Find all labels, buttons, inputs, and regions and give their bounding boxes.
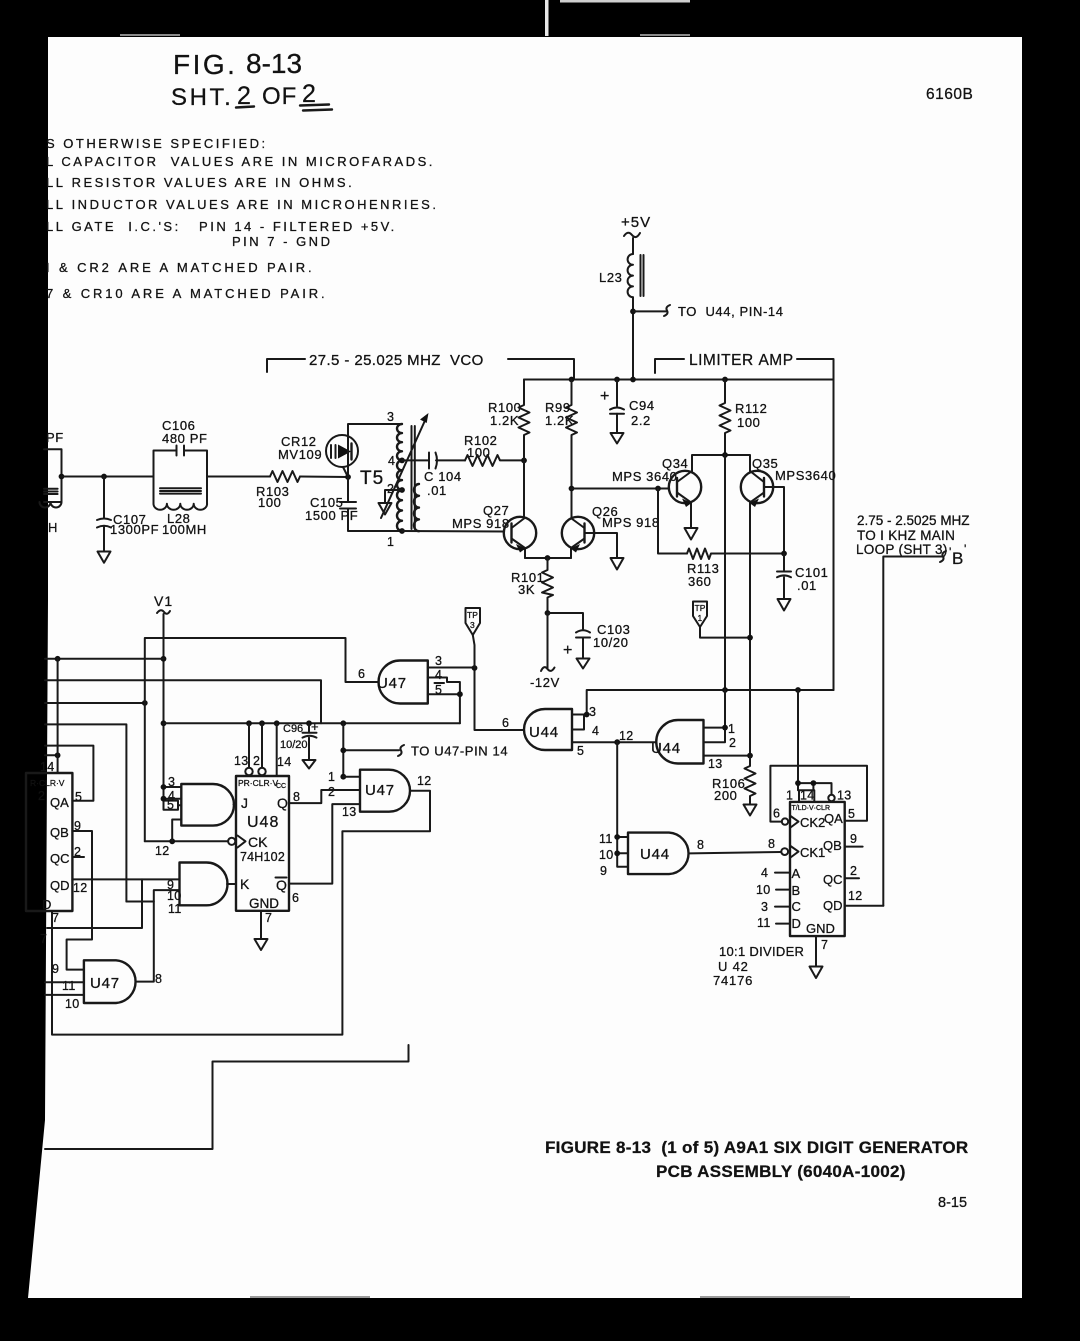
svg-text:QA: QA: [824, 811, 843, 826]
svg-text:1500 PF: 1500 PF: [305, 508, 358, 523]
svg-text:1: 1: [387, 535, 394, 549]
svg-text:3: 3: [435, 654, 442, 668]
svg-text:7: 7: [821, 938, 828, 952]
junction: T5 pin 2 tap: [399, 487, 405, 493]
svg-text:LL GATE I.C.'S: PIN 14 - FI: LL GATE I.C.'S: PIN 14 - FILTERED +5V.: [46, 219, 397, 234]
svg-text:A: A: [792, 866, 801, 881]
svg-text:QA: QA: [50, 795, 69, 810]
resistor R112: [720, 380, 768, 456]
IC U48 74H102 flip-flop: [228, 754, 300, 925]
wire: T5 pin1 to Q27 base: [402, 530, 504, 533]
wire: QB to U47g3 pin9: [67, 831, 92, 970]
svg-text:2: 2: [38, 789, 45, 803]
junction: [614, 739, 620, 745]
wire: gate A output to J: [234, 804, 237, 806]
node: 27.5-25.025 MHZ VCO bracket label: [267, 352, 574, 380]
svg-text:J: J: [241, 795, 248, 811]
junction: [246, 720, 252, 726]
svg-text:PIN 7 - GND: PIN 7 - GND: [232, 234, 332, 249]
svg-text:2: 2: [729, 736, 736, 750]
svg-text:B: B: [952, 549, 963, 568]
svg-text:5: 5: [167, 798, 174, 812]
svg-text:C: C: [792, 899, 801, 914]
svg-text:10/20: 10/20: [280, 739, 308, 751]
svg-text:': ': [949, 545, 951, 559]
transformer T5: [348, 410, 419, 549]
junction: [259, 720, 265, 726]
svg-text:11: 11: [168, 902, 182, 916]
svg-text:200: 200: [714, 788, 738, 803]
svg-text:D: D: [792, 916, 801, 931]
svg-text:12: 12: [155, 844, 170, 858]
svg-text:': ': [964, 542, 966, 556]
wire: gate A pin3: [164, 786, 182, 788]
svg-text:C96: C96: [283, 723, 303, 735]
svg-text:6: 6: [358, 667, 365, 681]
svg-text:2.2: 2.2: [631, 413, 651, 428]
junction: [55, 752, 61, 758]
resistor R106: [712, 756, 756, 804]
junction: [722, 377, 728, 383]
wire: U47g3 out8 riser: [137, 902, 154, 982]
svg-text:C 104: C 104: [424, 469, 462, 484]
svg-text:6: 6: [773, 807, 780, 821]
wire: U44 out8 to U42 CK1: [690, 852, 781, 853]
svg-text:U47: U47: [90, 975, 120, 992]
svg-text:U47: U47: [377, 675, 407, 692]
gate U44 (pins 9,10,11 / out 8): [599, 832, 704, 878]
svg-text:Q: Q: [276, 877, 287, 893]
svg-text:PCB ASSEMBLY (6040A-1002): PCB ASSEMBLY (6040A-1002): [656, 1162, 906, 1181]
wire: U44 pin13: [704, 755, 751, 757]
wire: VCO/limiter top supply rail: [524, 379, 834, 381]
test point TP1: [693, 602, 750, 638]
svg-text:.01: .01: [427, 483, 447, 498]
junction: R99 / Q26 collector node: [569, 486, 575, 492]
svg-text:CK: CK: [248, 834, 268, 850]
junction: [101, 474, 107, 480]
resistor R99: [545, 380, 577, 489]
svg-text:5: 5: [75, 790, 82, 804]
svg-text:R112: R112: [735, 401, 768, 416]
svg-text:11: 11: [62, 979, 76, 993]
node: U42 ground pin 7: [815, 936, 817, 966]
svg-text:8-13: 8-13: [246, 48, 302, 79]
wire: Q26 collector to Q34 base: [572, 488, 670, 490]
svg-text:U47: U47: [365, 782, 395, 799]
svg-text:PR·CLR·V: PR·CLR·V: [238, 778, 278, 788]
ground: [98, 552, 111, 563]
node: figure caption: [545, 1138, 968, 1181]
svg-text:1: 1: [328, 770, 335, 784]
junction: [569, 377, 575, 383]
wire: U42 pin14 from rail: [798, 690, 832, 795]
wire: limiter collector feed split: [692, 455, 750, 471]
svg-text:7: 7: [265, 911, 272, 925]
svg-text:2: 2: [302, 80, 316, 108]
svg-text:12: 12: [417, 774, 432, 788]
svg-text:1300PF: 1300PF: [110, 522, 159, 537]
resistor R113: [687, 549, 784, 590]
svg-text:S OTHERWISE SPECIFIED:: S OTHERWISE SPECIFIED:: [46, 136, 268, 151]
svg-text:5: 5: [848, 807, 855, 821]
junction: [747, 753, 753, 759]
svg-text:2.75 - 2.5025 MHZ: 2.75 - 2.5025 MHZ: [857, 513, 970, 528]
gate U44 (pins 1,2,13 / out 12): [619, 720, 736, 771]
node: output label 2.75-2.5025 MHZ TO 1 KHZ MAIN LOOP (SHT 3): [856, 513, 970, 557]
wire: Q35 emitter down to TP1 junction: [749, 554, 751, 756]
wire: border bus line 3: [45, 702, 145, 704]
svg-text:R·CLR·V: R·CLR·V: [30, 778, 65, 788]
junction: [161, 784, 167, 790]
wire: long bus V1 to U47 pins4/5: [164, 722, 460, 724]
wire: U47 out6 loop to border line 3: [145, 638, 379, 841]
inductor L23: [599, 254, 644, 297]
ground: [255, 939, 268, 950]
wire: U48 CK line: [145, 840, 228, 842]
svg-text:13: 13: [837, 789, 852, 803]
svg-text:QC: QC: [50, 851, 70, 866]
svg-text:10/20: 10/20: [593, 635, 629, 650]
resistor R102: [464, 433, 524, 466]
svg-text:CK1: CK1: [800, 845, 825, 860]
wire: U47g2 pin2 / U48 Q: [289, 790, 360, 803]
svg-text:4: 4: [435, 668, 442, 682]
junction: [747, 635, 753, 641]
svg-text:+5V: +5V: [621, 214, 651, 231]
svg-text:L CAPACITOR VALUES ARE IN MIC: L CAPACITOR VALUES ARE IN MICROFARADS.: [46, 154, 435, 169]
svg-text:GND: GND: [249, 896, 279, 911]
svg-text:6160B: 6160B: [926, 86, 973, 103]
svg-text:I & CR2 ARE A MATCHED PAIR.: I & CR2 ARE A MATCHED PAIR.: [46, 260, 315, 275]
junction: [614, 377, 620, 383]
svg-text:100MH: 100MH: [162, 522, 207, 537]
gate: K input AND: [167, 863, 228, 917]
junction: T5 pin 1: [399, 528, 405, 534]
capacitor C103: [548, 613, 631, 659]
svg-text:74176: 74176: [713, 973, 753, 988]
svg-text:TO U44, PIN-14: TO U44, PIN-14: [678, 304, 784, 319]
svg-text:27.5 - 25.025 MHZ VCO: 27.5 - 25.025 MHZ VCO: [309, 352, 484, 369]
svg-text:9: 9: [850, 832, 857, 846]
svg-text:FIGURE 8-13 (1 of 5) A9A1 SIX: FIGURE 8-13 (1 of 5) A9A1 SIX DIGIT GENE…: [545, 1138, 968, 1157]
svg-text:QD: QD: [823, 898, 843, 913]
wire: QD to gate B pin9: [72, 878, 179, 880]
wire: border bus line 1: [45, 658, 164, 660]
gate U47 (pins 9,11,10 / out 8): [52, 960, 162, 1011]
node: TO U44 PIN-14 stub: [633, 304, 784, 319]
junction: [340, 747, 346, 753]
svg-text:TP: TP: [695, 603, 706, 613]
ground: [577, 659, 590, 669]
svg-text:LL INDUCTOR VALUES ARE IN MICR: LL INDUCTOR VALUES ARE IN MICROHENRIES.: [46, 197, 438, 212]
junction: [340, 774, 346, 780]
junction: [161, 656, 167, 662]
svg-text:9: 9: [52, 962, 59, 976]
junction: [169, 838, 175, 844]
svg-text:74H102: 74H102: [240, 850, 285, 864]
svg-text:2: 2: [850, 864, 857, 878]
junction: [655, 486, 661, 492]
svg-text:3: 3: [387, 410, 394, 424]
wire: gate A pin5 stub: [178, 804, 181, 806]
capacitor C104: [402, 453, 465, 499]
svg-text:+: +: [311, 719, 319, 734]
junction: [630, 377, 636, 383]
svg-text:MPS 3640: MPS 3640: [612, 469, 678, 484]
junction: [340, 720, 346, 726]
svg-text:10: 10: [599, 848, 614, 862]
ground: [379, 503, 392, 515]
wire: gate A pin4: [164, 798, 182, 800]
node: connector B: [940, 542, 966, 568]
svg-text:100: 100: [258, 495, 282, 510]
svg-text:4: 4: [761, 866, 768, 880]
svg-text:11: 11: [757, 916, 771, 930]
svg-text:PF: PF: [46, 430, 64, 445]
capacitor C101: [777, 554, 828, 599]
svg-text:QB: QB: [823, 838, 842, 853]
node: T5 tuning arrow: [381, 413, 429, 518]
svg-text:12: 12: [848, 889, 863, 903]
wire: U47g3 pin10 from border: [45, 994, 84, 996]
junction: [274, 720, 280, 726]
wire: bottom exit stub stepped: [45, 1045, 409, 1149]
svg-text:L23: L23: [599, 270, 623, 285]
svg-text:14: 14: [800, 789, 815, 803]
wire: U44 out6 to TP3 node: [475, 668, 524, 730]
junction: [161, 796, 167, 802]
svg-text:3K: 3K: [518, 582, 535, 597]
svg-text:QB: QB: [50, 825, 69, 840]
svg-text:U44: U44: [529, 724, 559, 741]
wire: U47 pins 4,5 tie: [428, 678, 460, 724]
wire: U42 QA to CK2 feedback loop: [770, 766, 867, 822]
capacitor C96: [280, 719, 319, 760]
svg-text:10: 10: [756, 883, 771, 897]
junction: [545, 555, 551, 561]
svg-text:13: 13: [234, 754, 249, 768]
svg-text:13: 13: [342, 805, 357, 819]
wire: T5 pin2 to ground: [385, 490, 402, 503]
svg-text:C94: C94: [629, 398, 655, 413]
svg-text:11: 11: [599, 832, 613, 846]
node: TO U47-PIN14 stub: [343, 723, 508, 776]
svg-text:3: 3: [761, 900, 768, 914]
wire: U47g3 pin11 from border: [45, 981, 84, 983]
diode CR12 (varactor): [278, 434, 358, 477]
wire: U47g2 pin1: [343, 776, 360, 778]
junction: [795, 780, 801, 786]
wire: U44 pins 3+4 tie: [572, 715, 587, 730]
junction: [521, 458, 527, 464]
transistor Q27: [452, 460, 536, 558]
svg-text:8: 8: [697, 838, 704, 852]
svg-text:13: 13: [708, 757, 723, 771]
wire: rail down to U44 pin1/pin2: [704, 690, 726, 742]
wire: border bus line 5 to QA pin: [45, 746, 93, 801]
svg-text:B: B: [792, 883, 801, 898]
svg-text:QD: QD: [50, 878, 70, 893]
svg-text:LOOP (SHT 3): LOOP (SHT 3): [856, 542, 948, 557]
svg-text:2: 2: [328, 785, 335, 799]
svg-text:TP: TP: [467, 610, 478, 620]
capacitor C107: [97, 477, 159, 552]
svg-text:-12V: -12V: [530, 675, 560, 690]
svg-text:V1: V1: [154, 593, 173, 609]
junction: [811, 780, 817, 786]
gate U47 (pins 1,2,13 / out 12): [328, 770, 432, 819]
svg-text:480 PF: 480 PF: [162, 431, 208, 446]
svg-text:12: 12: [619, 729, 634, 743]
svg-text:TO U47-PIN 14: TO U47-PIN 14: [411, 744, 508, 759]
svg-text:+: +: [600, 388, 609, 405]
transistor Q34: [612, 456, 701, 528]
wire: border bus line 6: [45, 754, 58, 756]
svg-text:6: 6: [502, 716, 509, 730]
wire: IC pin14 riser: [57, 659, 59, 773]
junction: [142, 700, 148, 706]
wire: U44g1 pin5 node down to U44g3 inputs: [617, 742, 628, 867]
ground: [303, 760, 316, 769]
junction: [345, 474, 351, 480]
svg-text:14: 14: [40, 760, 55, 774]
svg-text:7: 7: [40, 932, 47, 946]
svg-text:U44: U44: [651, 740, 681, 757]
wire: common emitter rail: [525, 557, 571, 559]
svg-text:8: 8: [293, 790, 300, 804]
ground: [810, 967, 823, 979]
svg-text:8: 8: [155, 972, 162, 986]
svg-text:10: 10: [65, 997, 80, 1011]
junction: [614, 834, 620, 840]
wire: QC pin2 stub: [72, 856, 84, 858]
svg-text:1.2K: 1.2K: [490, 413, 519, 428]
wire: CK branch to gate A low input: [172, 820, 181, 842]
ground: [778, 599, 791, 611]
svg-text:10:1 DIVIDER: 10:1 DIVIDER: [719, 944, 804, 959]
ground: [744, 805, 757, 816]
svg-text:Q: Q: [277, 795, 288, 811]
svg-text:FIG.: FIG.: [173, 49, 237, 80]
transistor Q35: [741, 456, 836, 554]
transistor Q26: [562, 489, 660, 559]
svg-text:U48: U48: [247, 814, 279, 831]
svg-text:MPS3640: MPS3640: [775, 468, 836, 483]
svg-text:8: 8: [768, 837, 775, 851]
svg-text:1: 1: [786, 789, 793, 803]
wire: Q34 base branch to R113: [658, 489, 687, 554]
gate U44 (pins 3,4,5 / out 6): [502, 705, 599, 758]
junction: [457, 691, 463, 697]
junction: [614, 850, 620, 856]
ground: Q26 base: [611, 558, 624, 570]
svg-text:6: 6: [292, 891, 299, 905]
svg-text:LIMITER AMP: LIMITER AMP: [689, 352, 794, 369]
wire: U44 pin5 to U44 out12: [572, 741, 657, 743]
wire: QD branch to border: [47, 879, 142, 928]
svg-text:4: 4: [388, 454, 395, 468]
svg-text:GND: GND: [806, 921, 835, 936]
inductor L28: [154, 477, 208, 538]
svg-text:3: 3: [470, 620, 475, 630]
svg-text:14: 14: [277, 755, 292, 769]
svg-text:7: 7: [52, 911, 59, 925]
svg-text:100: 100: [737, 415, 761, 430]
svg-text:OF: OF: [262, 83, 297, 110]
junction: [722, 725, 728, 731]
svg-text:4: 4: [592, 724, 599, 738]
ground: [611, 433, 624, 444]
svg-text:MPS 918: MPS 918: [602, 515, 660, 530]
IC U42 74176 divider: [713, 789, 863, 989]
IC U41 divider (cut off at border): [26, 760, 88, 925]
node: LIMITER AMP bracket label: [655, 352, 834, 690]
node: -12V supply: [530, 613, 560, 690]
capacitor C106: [154, 418, 208, 477]
svg-text:7 & CR10 ARE A MATCHED PAIR.: 7 & CR10 ARE A MATCHED PAIR.: [46, 286, 328, 301]
wire: gate B output to K: [227, 883, 236, 885]
junction: [584, 712, 590, 718]
junction: [161, 720, 167, 726]
svg-text:MPS 918: MPS 918: [452, 516, 510, 531]
node: handwritten figure title FIG. 8-13 SHT. 2 OF 2: [171, 48, 332, 111]
svg-text:LL RESISTOR VALUES ARE IN OHMS: LL RESISTOR VALUES ARE IN OHMS.: [46, 175, 354, 190]
svg-text:3: 3: [589, 705, 596, 719]
junction: [306, 720, 312, 726]
resistor R101: [511, 558, 553, 613]
svg-text:5: 5: [577, 744, 584, 758]
svg-text:T5: T5: [360, 468, 384, 489]
wire: border bus line 4 to gate K pin10: [45, 724, 126, 901]
gate U47 (pins 3,4,5 / out 6): [358, 654, 444, 704]
svg-text:9: 9: [600, 864, 607, 878]
wire: main VCO input line: [62, 476, 349, 479]
junction: [545, 610, 551, 616]
svg-text:D: D: [42, 897, 51, 912]
resistor R103: [256, 471, 300, 510]
capacitor C105: [305, 495, 358, 523]
node: +5V supply: [621, 214, 651, 254]
svg-text:CK2: CK2: [800, 815, 825, 830]
svg-text:12: 12: [73, 881, 88, 895]
wire: U42 QD pin12: [845, 905, 884, 907]
junction: [59, 474, 65, 480]
junction: [722, 452, 728, 458]
svg-text:TO I KHZ MAIN: TO I KHZ MAIN: [857, 528, 955, 543]
capacitor C94: [600, 380, 655, 433]
svg-text:U44: U44: [640, 846, 670, 863]
wire: B output from U42 QD: [883, 557, 943, 906]
wire: L23 to VCO rail: [632, 297, 634, 379]
node: U48 ground pin7: [260, 911, 262, 939]
svg-text:QC: QC: [823, 872, 843, 887]
svg-text:.01: .01: [797, 578, 817, 593]
wire: U47 pin3: [428, 667, 475, 669]
node: V1 net: [154, 593, 173, 799]
junction: T5 pin 4 tap: [399, 458, 405, 464]
junction: [781, 551, 787, 557]
svg-text:+: +: [563, 642, 572, 659]
junction: [472, 665, 478, 671]
junction: [795, 687, 801, 693]
wire: gate B pin10 path: [126, 890, 179, 901]
junction: [722, 687, 728, 693]
svg-text:MV109: MV109: [278, 447, 322, 462]
resistor R100: [488, 380, 530, 461]
wire: U48 top pins to bus: [249, 723, 277, 776]
node: notes block (cut off at left border): [46, 136, 438, 301]
